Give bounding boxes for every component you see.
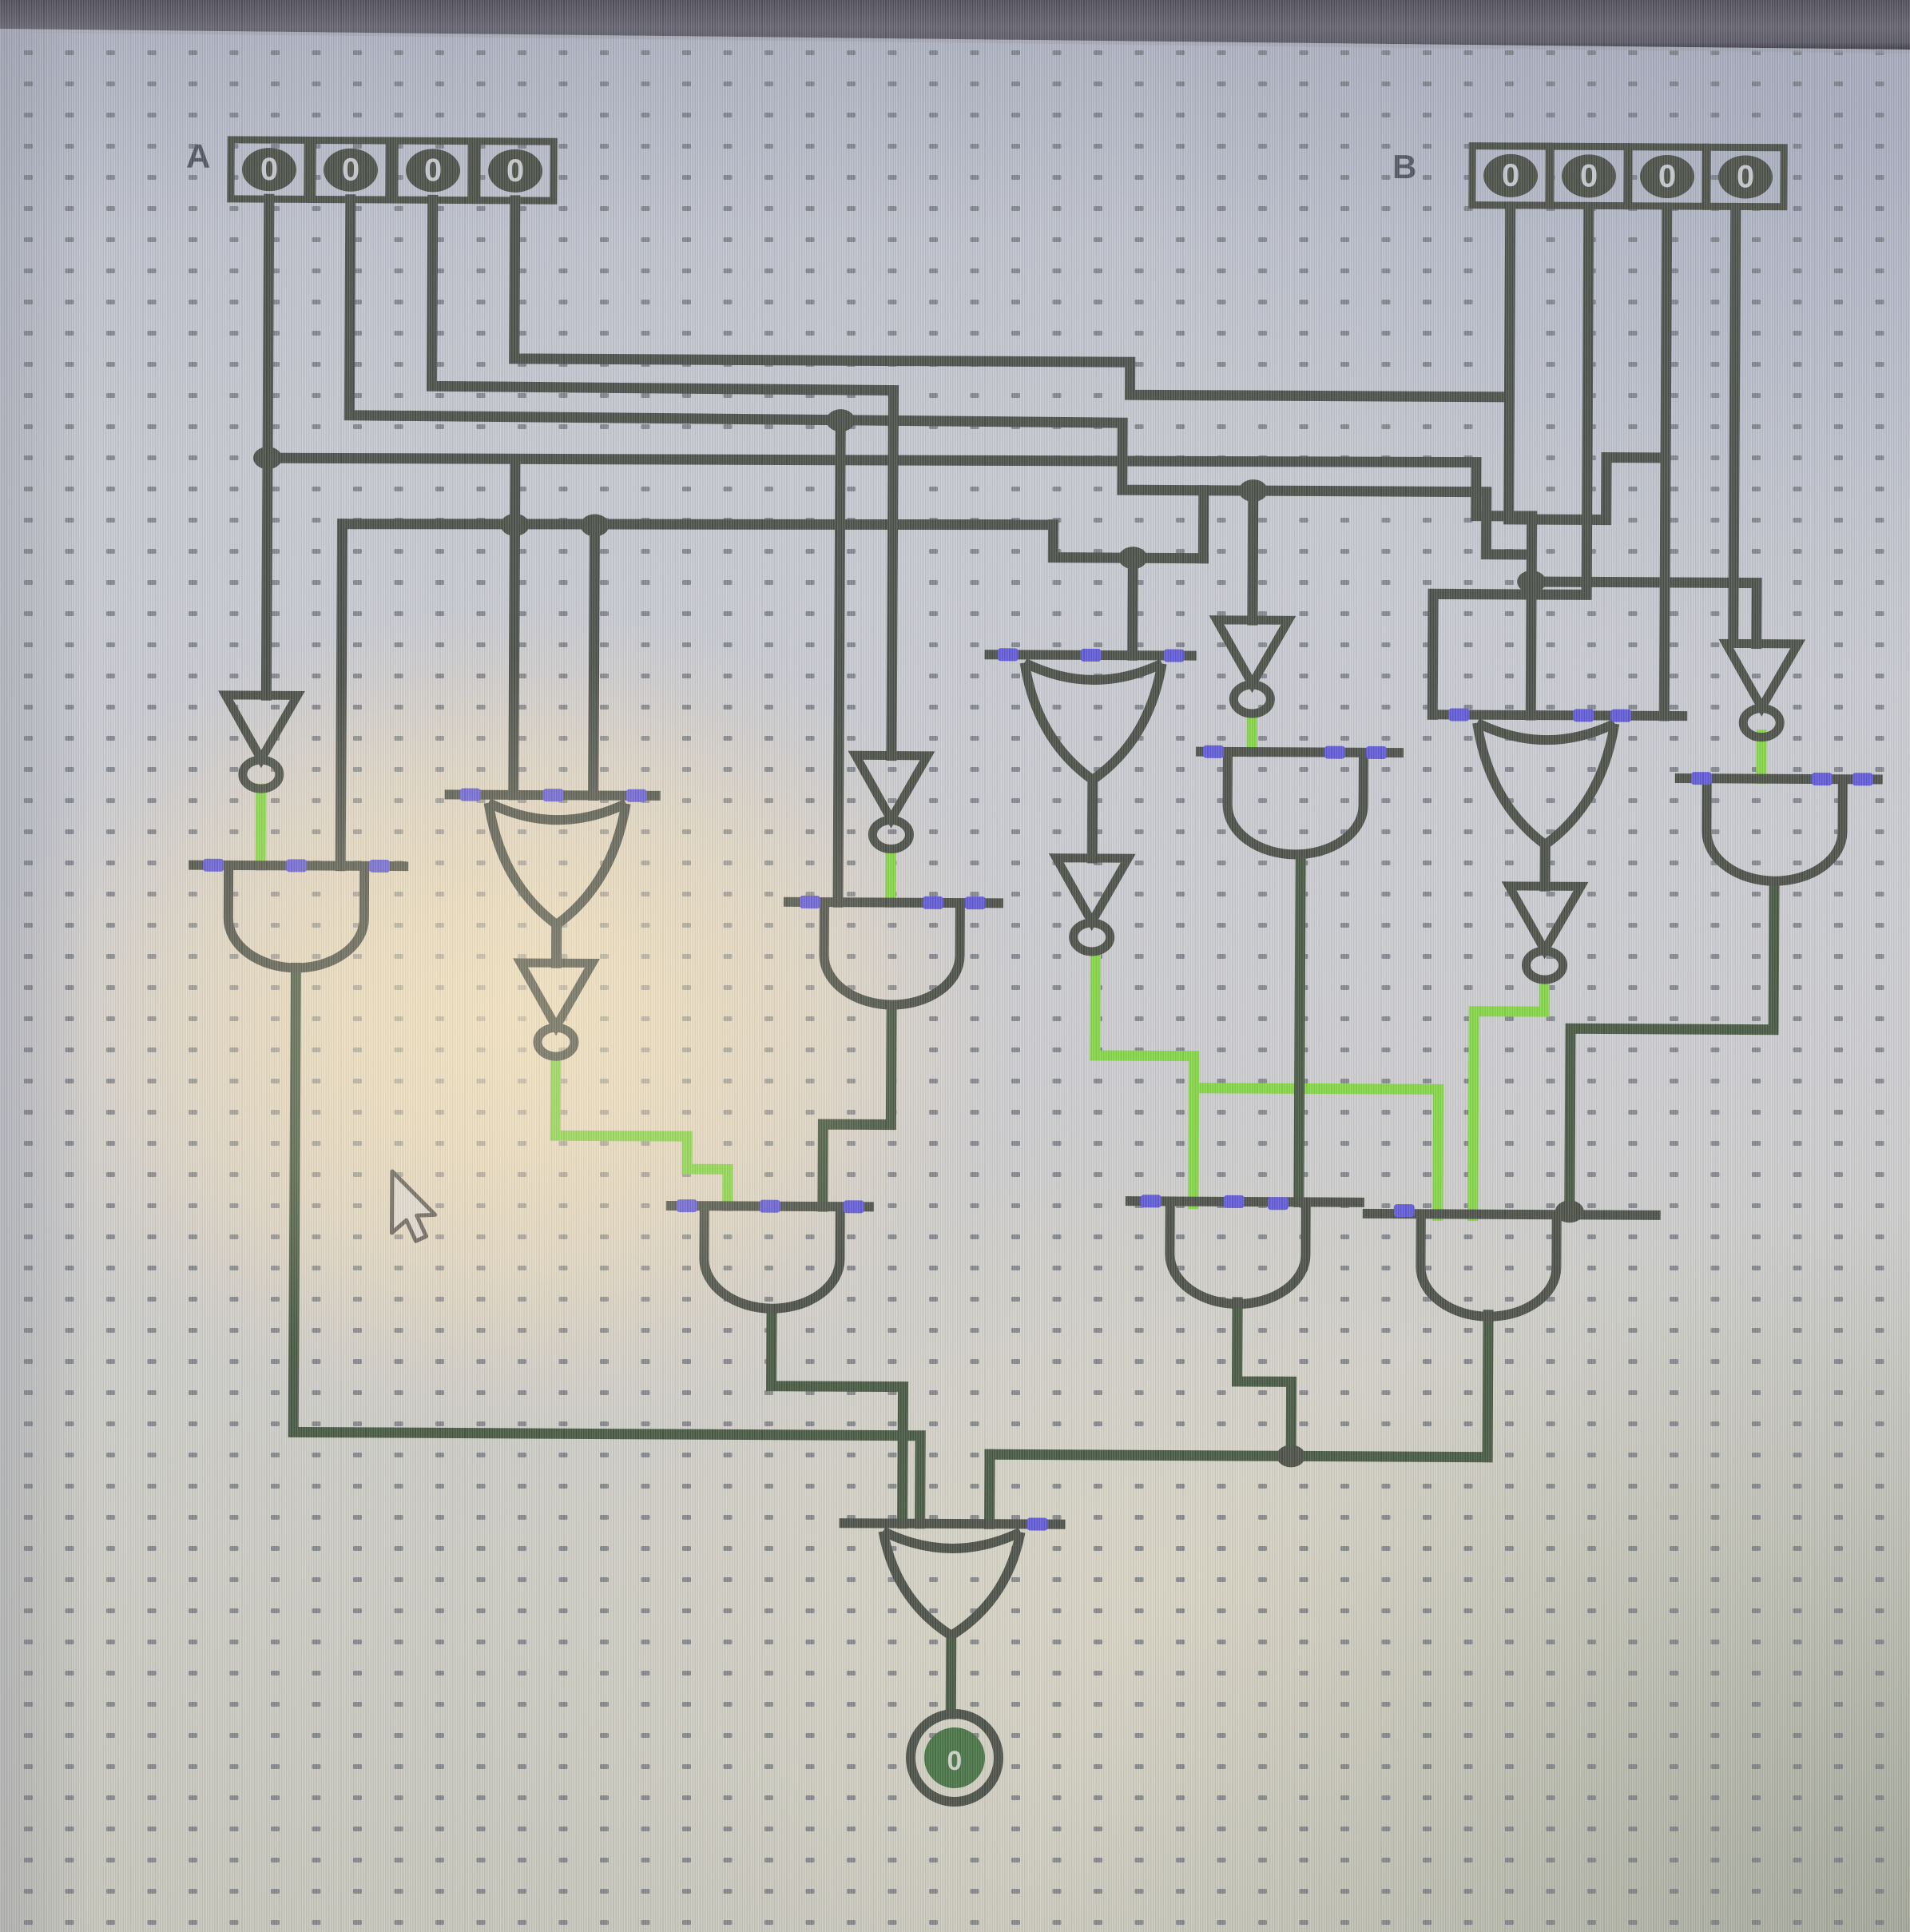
inverter U5 below OR G4	[1056, 858, 1129, 952]
AND gate G5	[665, 1206, 874, 1309]
AND gate G7	[1125, 1201, 1364, 1305]
wire B2 down west to OR G6 input	[1432, 206, 1589, 715]
wire H724 east then down to inverter U7	[1531, 582, 1757, 644]
input pin B bit 0	[1707, 147, 1784, 207]
floating input G8 a	[1394, 1204, 1415, 1217]
floating input G5 c	[844, 1200, 864, 1213]
wire A1 branch east to right column	[268, 455, 1532, 516]
wire G7 out to row 1820	[1237, 1302, 1292, 1456]
junction node H3-a	[500, 514, 529, 536]
AND gate G3	[783, 902, 1003, 1006]
input pin A bit 0	[477, 141, 554, 201]
floating input G6 a	[1448, 708, 1469, 721]
floating input G7 b	[1224, 1195, 1245, 1208]
wire OR G6 out to inverter U6	[1540, 849, 1551, 886]
floating input G2 b	[543, 789, 564, 801]
junction node H3-b	[580, 514, 609, 536]
wire A3 east then down to inverter U3	[430, 200, 895, 755]
wire G1 out long run to bottom OR G10	[293, 968, 923, 1523]
floating input G6 c	[1610, 710, 1631, 722]
wire H3 long row west-east	[343, 521, 1054, 528]
inverter U6 below OR G6	[1508, 886, 1581, 980]
AND gate G11	[1674, 778, 1883, 881]
OR gate G6	[1427, 714, 1687, 845]
screen top bar	[0, 0, 1910, 50]
wire down to bottom OR G10	[984, 1454, 995, 1524]
junction node row 1820	[1277, 1445, 1305, 1467]
floating input G3 b	[923, 896, 943, 909]
wire hang from A2 row	[1198, 491, 1209, 559]
wire green U5 out to AND G7	[1094, 956, 1195, 1204]
wire B1 down with jog joining B3 column	[1509, 207, 1667, 520]
floating input G4 a	[998, 648, 1019, 661]
floating input G4 c	[1164, 649, 1185, 662]
output pin OUT (value 0)	[911, 1714, 999, 1803]
wire green U1 out to AND G1	[256, 789, 267, 865]
wire green U6 out to AND G8	[1473, 980, 1545, 1216]
wire OR G4 out to inverter U5	[1087, 780, 1098, 858]
inverter U2 below OR G2	[520, 963, 593, 1057]
wire down to OR G2 input b	[594, 525, 595, 795]
floating input G3 a	[800, 896, 820, 908]
floating input G7 c	[1268, 1197, 1289, 1210]
wire green branch to AND G8	[1193, 1088, 1439, 1216]
wire G11 out to AND G8 line	[1570, 881, 1774, 1207]
junction node row 697	[1118, 547, 1147, 569]
wire green U2 out zigzag to AND G5	[555, 1057, 729, 1206]
input pin A bit 1	[395, 141, 471, 201]
mouse cursor	[392, 1171, 435, 1241]
floating input G5 b	[760, 1200, 780, 1213]
floating input G11 c	[1852, 773, 1873, 785]
AND gate G1	[188, 865, 408, 969]
floating input G1 b	[286, 859, 307, 872]
wire green U7 out to AND G11	[1756, 735, 1766, 779]
junction node A2 / V-mid	[826, 409, 855, 431]
floating input G7 a	[1141, 1195, 1161, 1207]
floating input G9 b	[1324, 746, 1345, 759]
wire G9 out down to AND G7	[1299, 855, 1300, 1202]
input pin B bit 1	[1629, 147, 1705, 207]
OR gate G10 (final)	[839, 1523, 1066, 1636]
inverter U1 (NOT A1)	[225, 695, 298, 789]
inverter U3	[855, 755, 927, 849]
wire A2 long run east with jogs	[348, 200, 1531, 555]
wire down to OR G2 input a	[514, 459, 515, 795]
wire OR G2 out to inverter U2	[551, 924, 562, 963]
junction node I3 feed	[1239, 479, 1268, 502]
floating input G11 a	[1691, 772, 1712, 785]
input pin A bit 3	[231, 140, 308, 200]
inverter U4	[1216, 620, 1289, 714]
wire B3 straight down to OR G6	[1664, 208, 1667, 716]
floating input G6 b	[1573, 709, 1594, 722]
floating input G9 a	[1203, 745, 1224, 758]
wire G5 out to bottom OR G10	[771, 1314, 903, 1524]
input pin A bit 2	[312, 140, 389, 200]
input pin B bit 2	[1551, 146, 1627, 206]
wire A1 pin down to inverter U1	[266, 199, 268, 695]
AND gate G9	[1195, 752, 1404, 855]
floating input G10 a	[1027, 1518, 1048, 1531]
wire elbow row 697	[1053, 525, 1203, 559]
wire vertical into OR G6 center	[1531, 516, 1531, 715]
floating input G3 c	[965, 896, 986, 909]
OR gate G4	[984, 654, 1197, 780]
floating input G11 b	[1812, 773, 1833, 785]
floating input G1 a	[203, 859, 224, 872]
wire from A2 junction down to AND G3 input	[838, 420, 840, 902]
wire down to AND G1 right input	[340, 524, 342, 866]
floating input G2 a	[460, 789, 481, 801]
wire G3 out down-left to AND G5	[823, 1008, 891, 1207]
wire green U3 out to AND G3	[885, 850, 895, 903]
wire G8 out down	[1483, 1315, 1494, 1457]
OR gate G2	[444, 794, 661, 925]
wire down to OR G4 input	[1127, 558, 1138, 655]
junction node right tangle	[1517, 570, 1546, 593]
input pin B bit 3	[1472, 146, 1549, 206]
wire row 1820 west	[990, 1454, 1487, 1457]
wire down to inverter U4	[1247, 491, 1258, 620]
floating input G9 c	[1366, 746, 1387, 759]
wire A4 east with jog to B column	[514, 201, 1510, 397]
floating input G2 c	[626, 789, 647, 802]
floating input G4 b	[1081, 649, 1102, 662]
wire B4 down to inverter U7 area	[1733, 208, 1736, 642]
floating input G5 a	[677, 1199, 697, 1212]
junction node on G8 line	[1555, 1200, 1584, 1222]
AND gate G8	[1362, 1214, 1661, 1318]
wire green U4 out to AND G9	[1246, 716, 1257, 752]
junction node A1 branch	[253, 447, 282, 469]
wire bottom OR G10 out to output pin	[946, 1636, 957, 1714]
inverter U7	[1725, 643, 1798, 737]
floating input G1 c	[369, 860, 390, 873]
